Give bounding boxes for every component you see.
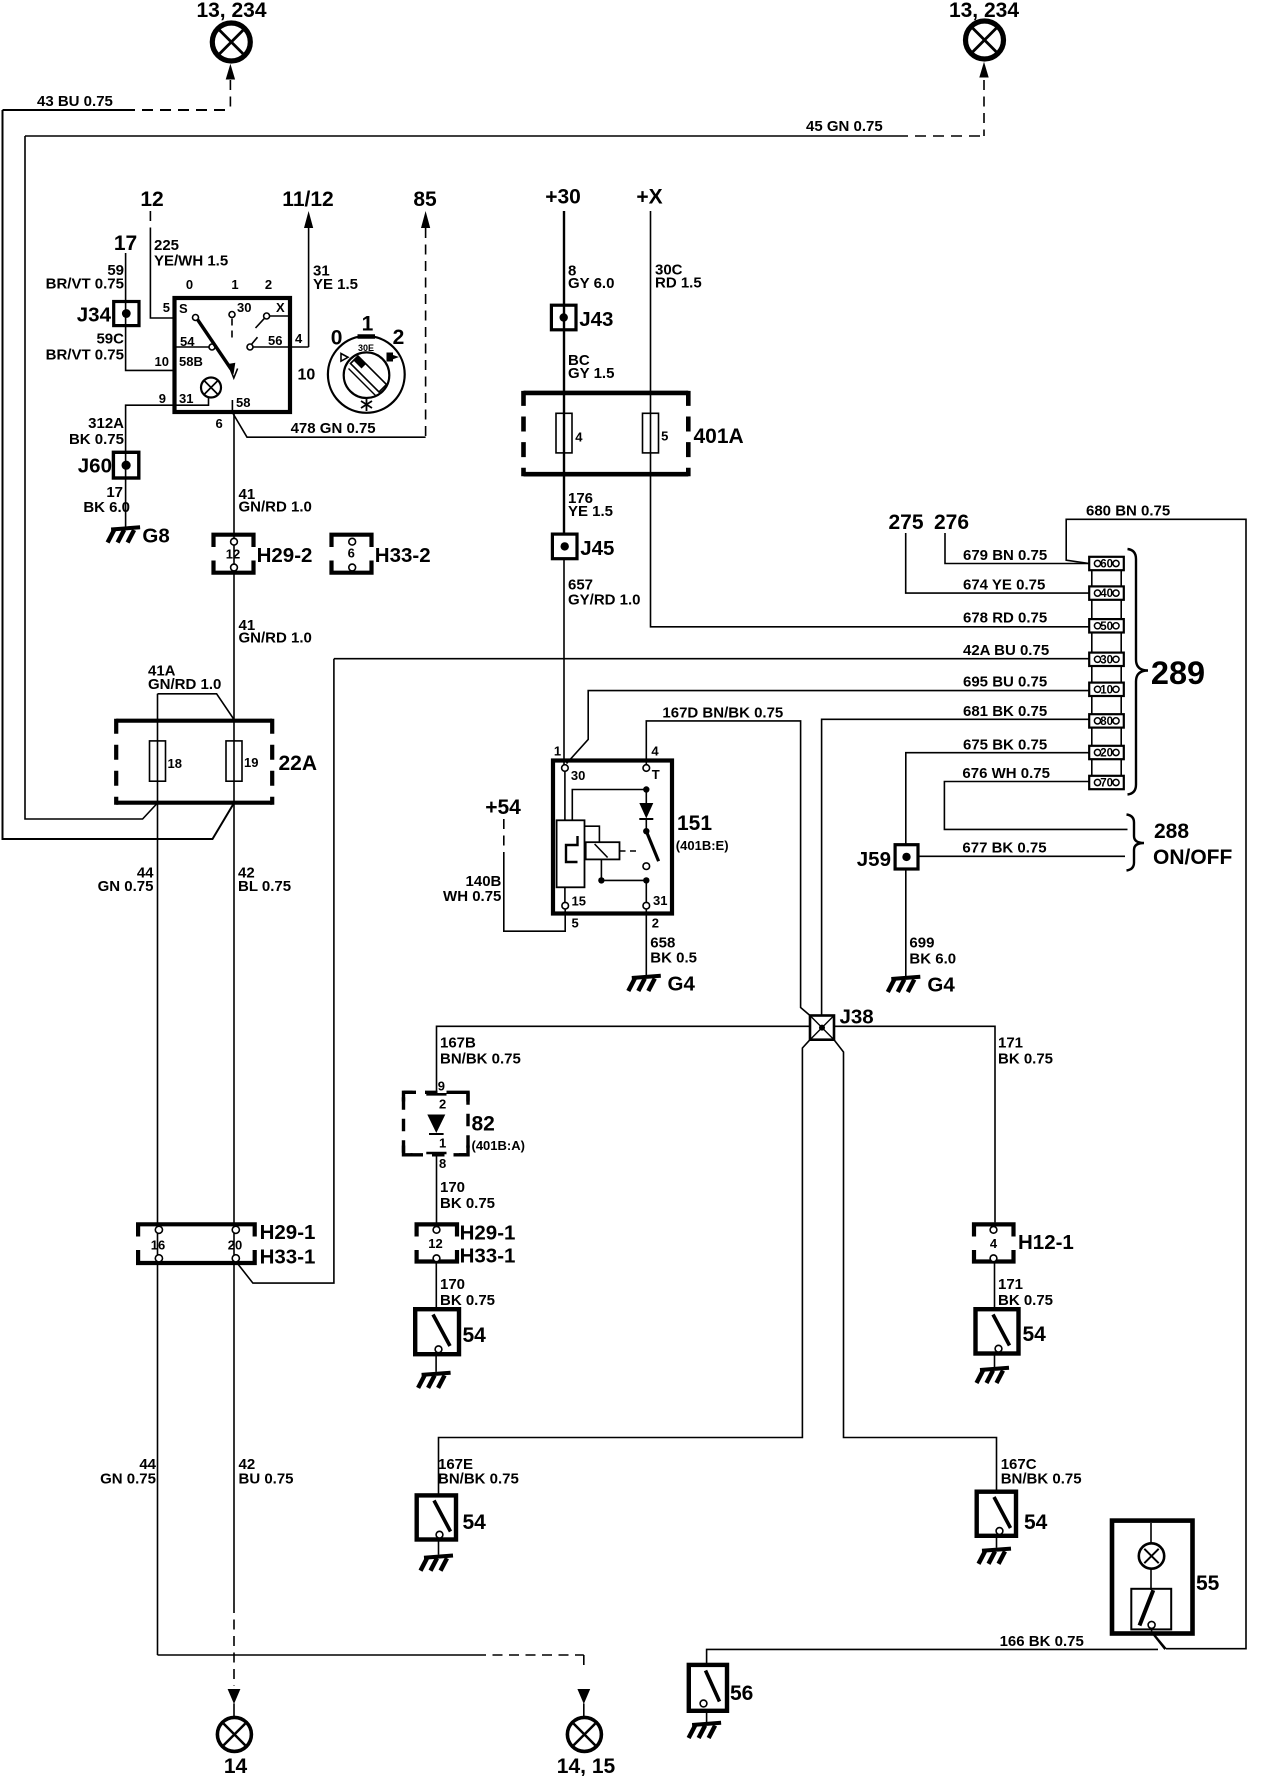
wire label 170 BK 0.75 (upper) xyxy=(440,1179,495,1212)
wire label 225 YE/WH 1.5 xyxy=(154,237,228,270)
svg-text:WH 0.75: WH 0.75 xyxy=(443,888,501,905)
switch 10 box xyxy=(175,298,291,412)
wire 167D BN/BK 0.75 from pin 4 xyxy=(646,721,810,1016)
node 276 label xyxy=(934,511,969,534)
svg-text:54: 54 xyxy=(1024,1511,1048,1534)
node +30 label xyxy=(545,186,581,209)
svg-text:5: 5 xyxy=(661,429,668,444)
switch 10 terminal 58 xyxy=(232,395,250,412)
svg-text:BK 0.75: BK 0.75 xyxy=(440,1195,495,1212)
wire 676 WH 0.75 from 288 to pin 70 xyxy=(944,782,1127,830)
wire 681 BK 0.75 to pin 80 and down to J38 xyxy=(822,719,1090,1015)
wire label 42 BL 0.75 (upper) xyxy=(238,865,291,896)
relay 151 armature xyxy=(557,772,585,903)
wire left rail (43 BU) down and to fuse 19 column xyxy=(3,110,235,839)
connector J59 label xyxy=(857,848,891,871)
svg-text:151: 151 xyxy=(677,812,712,835)
svg-text:20: 20 xyxy=(228,1238,242,1253)
wire label 41 GN/RD 1.0 (upper) xyxy=(239,486,312,516)
svg-text:12: 12 xyxy=(226,547,240,562)
svg-text:50: 50 xyxy=(1100,621,1113,633)
wire 166 BK 0.75 from 55 to 56 xyxy=(707,1634,1165,1665)
wire 171 BK 0.75 to switch 54 (right) xyxy=(994,1262,996,1310)
svg-text:59C: 59C xyxy=(96,331,124,348)
svg-text:85: 85 xyxy=(413,188,437,211)
svg-text:1: 1 xyxy=(439,1136,446,1151)
wire label 59C BR/VT 0.75 xyxy=(46,331,125,364)
svg-text:54: 54 xyxy=(1023,1323,1047,1346)
switch 54 (door contact, left) xyxy=(415,1309,459,1354)
svg-text:BK 6.0: BK 6.0 xyxy=(83,499,130,516)
switch 54 (left) label xyxy=(463,1324,487,1347)
svg-text:679 BN 0.75: 679 BN 0.75 xyxy=(963,547,1047,564)
relay 151 pin 4 (T) xyxy=(643,744,660,783)
wire 59 BR/VT 0.75 down through J34 to pin 10 xyxy=(126,253,173,370)
svg-text:GN/RD 1.0: GN/RD 1.0 xyxy=(239,499,312,516)
svg-text:30E: 30E xyxy=(358,343,374,353)
wire J38 bottom-right branch down to 167C xyxy=(834,1040,997,1492)
wire label 680 BN 0.75 xyxy=(1086,503,1170,520)
wire J38 bottom-left branch down to 167E xyxy=(439,1040,811,1496)
wire 699 BK 6.0 from J59 to G4 xyxy=(905,869,907,976)
svg-text:171: 171 xyxy=(998,1276,1023,1293)
wire 677 BK 0.75 from J59 to 288 xyxy=(918,855,1125,857)
connector 288 ON/OFF label xyxy=(1153,820,1232,869)
wire label 171 BK 0.75 (upper) xyxy=(998,1035,1053,1068)
ignition key symbol xyxy=(328,313,405,413)
svg-text:GY 6.0: GY 6.0 xyxy=(568,275,614,292)
wire label 167C BN/BK 0.75 xyxy=(1001,1456,1082,1488)
svg-text:167B: 167B xyxy=(440,1035,476,1052)
relay 22A label xyxy=(279,752,318,775)
wire 170 BK 0.75 to switch 54 xyxy=(435,1262,437,1310)
fuse 4 xyxy=(556,413,583,453)
connector H29-1/H33-1 (right) xyxy=(417,1224,457,1261)
relay 151 coil xyxy=(585,826,647,883)
ground G4 (right) xyxy=(888,974,956,997)
connector H33-2 label xyxy=(375,544,431,567)
svg-text:1: 1 xyxy=(231,277,238,292)
svg-text:4: 4 xyxy=(651,744,659,759)
svg-text:30: 30 xyxy=(1100,654,1113,666)
connector H29-2 xyxy=(214,535,254,573)
lamp 13,234 (left top) xyxy=(212,23,250,61)
fuse 19 xyxy=(226,741,258,781)
connector H12-1 xyxy=(974,1224,1014,1261)
wire label 44 GN 0.75 (upper) xyxy=(98,865,155,896)
svg-text:58: 58 xyxy=(236,395,250,410)
connector 289 pin 40 xyxy=(1089,586,1124,600)
wire label 59 BR/VT 0.75 xyxy=(46,262,124,293)
svg-text:J43: J43 xyxy=(579,308,613,331)
svg-text:T: T xyxy=(652,767,660,782)
svg-text:GN/RD 1.0: GN/RD 1.0 xyxy=(239,630,312,647)
connector J34 label xyxy=(77,304,112,327)
connector 289 label xyxy=(1151,655,1205,691)
node +54 label xyxy=(485,796,521,819)
wire 41A GN/RD 1.0 branch to fuse 18 xyxy=(158,694,235,720)
svg-text:YE/WH 1.5: YE/WH 1.5 xyxy=(154,253,228,270)
connector 289 brace xyxy=(1128,549,1149,795)
switch 10 terminal 58B xyxy=(179,354,203,369)
wire label 681 BK 0.75 xyxy=(963,703,1047,720)
svg-text:GN/RD 1.0: GN/RD 1.0 xyxy=(148,676,221,693)
wire 140B WH 0.75 from +54 to pin 5 xyxy=(504,819,565,931)
svg-text:2: 2 xyxy=(439,1097,446,1112)
wire label 140B WH 0.75 xyxy=(443,873,502,905)
svg-text:9: 9 xyxy=(438,1079,445,1094)
svg-text:30: 30 xyxy=(571,768,585,783)
relay 151 box xyxy=(553,761,672,914)
wire label 675 BK 0.75 xyxy=(963,737,1047,754)
connector 289 pin 70 xyxy=(1089,776,1124,790)
node 85 arrow xyxy=(413,188,437,437)
unit 55 lamp xyxy=(1139,1523,1164,1590)
wire label 312A BK 0.75 xyxy=(69,415,124,448)
node 12 label xyxy=(140,188,163,211)
switch 56 label xyxy=(730,1682,753,1705)
relay 151 internal link to diode xyxy=(572,790,646,821)
connector 289 pin rows xyxy=(1092,570,1121,776)
node +X label xyxy=(636,186,662,209)
wire label 677 BK 0.75 xyxy=(962,840,1046,857)
svg-text:13, 234: 13, 234 xyxy=(949,0,1019,22)
switch 10 position labels 0 1 2 xyxy=(186,277,272,292)
wire label 30C RD 1.5 xyxy=(655,262,702,292)
svg-text:BK 0.75: BK 0.75 xyxy=(998,1051,1053,1068)
svg-text:GN 0.75: GN 0.75 xyxy=(98,878,154,895)
svg-text:275: 275 xyxy=(888,511,923,534)
wire J38 right branch to 171 column xyxy=(834,1026,995,1222)
svg-text:1: 1 xyxy=(362,313,374,336)
svg-text:GY 1.5: GY 1.5 xyxy=(568,365,614,382)
connector J45 label xyxy=(580,537,614,560)
wire label 699 BK 6.0 xyxy=(909,935,956,968)
svg-text:BK 6.0: BK 6.0 xyxy=(909,951,956,968)
svg-text:H29-1: H29-1 xyxy=(460,1222,516,1245)
wire 45 GN 0.75 horizontal xyxy=(25,135,984,137)
svg-text:70: 70 xyxy=(1100,778,1113,790)
svg-text:60: 60 xyxy=(1100,559,1113,571)
svg-text:680 BN 0.75: 680 BN 0.75 xyxy=(1086,503,1170,520)
svg-text:55: 55 xyxy=(1196,1572,1220,1595)
svg-text:401A: 401A xyxy=(694,425,744,448)
svg-text:17: 17 xyxy=(114,232,137,255)
svg-text:6: 6 xyxy=(348,546,355,561)
svg-text:16: 16 xyxy=(151,1238,165,1253)
svg-text:14: 14 xyxy=(224,1755,248,1776)
svg-text:+X: +X xyxy=(636,186,662,209)
component 10 label xyxy=(298,367,316,384)
svg-text:312A: 312A xyxy=(88,415,124,432)
svg-text:ON/OFF: ON/OFF xyxy=(1153,846,1232,869)
svg-text:BK 0.5: BK 0.5 xyxy=(650,950,697,967)
wire label 42A BU 0.75 xyxy=(963,642,1049,659)
svg-text:170: 170 xyxy=(440,1276,465,1293)
junction J38 xyxy=(810,1016,834,1040)
diode unit 82 xyxy=(404,1079,469,1172)
svg-text:1: 1 xyxy=(554,744,561,759)
wire 42 BL column down to lamp 14 xyxy=(228,721,241,1717)
wire label 478 GN 0.75 xyxy=(291,420,376,437)
svg-text:478 GN 0.75: 478 GN 0.75 xyxy=(291,420,376,437)
svg-text:56: 56 xyxy=(268,333,282,348)
connector H29-1/H33-1 (left, pins 16/20) xyxy=(138,1224,255,1263)
svg-text:BR/VT 0.75: BR/VT 0.75 xyxy=(46,347,124,364)
connector H29-1/H33-1 (left) labels xyxy=(260,1221,316,1269)
wire label 678 RD 0.75 xyxy=(963,610,1047,627)
svg-text:H12-1: H12-1 xyxy=(1018,1231,1074,1254)
node 14, 15 label xyxy=(557,1755,616,1776)
switch 54 (door contact, right) xyxy=(976,1309,1019,1353)
wire label 679 BN 0.75 xyxy=(963,547,1047,564)
svg-text:18: 18 xyxy=(168,756,182,771)
svg-text:G8: G8 xyxy=(142,525,169,548)
svg-text:BK 0.75: BK 0.75 xyxy=(69,431,124,448)
switch 10 outside pin numbers xyxy=(155,300,303,431)
wire label 674 YE 0.75 xyxy=(963,577,1045,594)
svg-text:695 BU 0.75: 695 BU 0.75 xyxy=(963,674,1047,691)
wire label 176 YE 1.5 xyxy=(568,490,613,520)
node 14 label xyxy=(224,1755,248,1776)
ground under switch 54 (left) xyxy=(418,1354,451,1388)
connector 289 pin 20 xyxy=(1089,746,1124,760)
svg-text:676 WH 0.75: 676 WH 0.75 xyxy=(962,765,1050,782)
switch 10 terminal 31 and lamp xyxy=(175,378,222,407)
svg-text:4: 4 xyxy=(295,331,303,346)
wire 170 BK 0.75 from 82 to H29-1 xyxy=(436,1155,438,1227)
svg-text:+54: +54 xyxy=(485,796,521,819)
svg-text:J38: J38 xyxy=(840,1006,874,1029)
svg-text:14, 15: 14, 15 xyxy=(557,1755,616,1776)
svg-text:171: 171 xyxy=(998,1035,1023,1052)
wire J38 left branch to 167B column xyxy=(437,1026,811,1092)
wire label BC GY 1.5 xyxy=(568,352,614,382)
wire label 41 GN/RD 1.0 (lower) xyxy=(239,617,312,647)
svg-text:4: 4 xyxy=(575,430,583,445)
switch 56 xyxy=(689,1665,727,1711)
lamp/switch unit 55 box xyxy=(1112,1521,1193,1634)
wire 658 BK 0.5 from pin 2 to G4 xyxy=(645,909,647,975)
svg-text:167D BN/BK 0.75: 167D BN/BK 0.75 xyxy=(662,705,783,722)
wire label 676 WH 0.75 xyxy=(962,765,1050,782)
connector H33-2 xyxy=(332,535,372,573)
wire 312A BK 0.75 from pin 9 down through J60 to G8 xyxy=(126,405,173,526)
lamp 14 (bottom) xyxy=(217,1717,251,1751)
switch 10 terminal X xyxy=(256,300,291,328)
svg-text:+30: +30 xyxy=(545,186,581,209)
ground G4 (left) xyxy=(628,973,695,996)
connector J34 xyxy=(114,302,139,326)
switch 54 (bottom right) label xyxy=(1024,1511,1048,1534)
svg-text:82: 82 xyxy=(472,1113,495,1136)
svg-text:681 BK 0.75: 681 BK 0.75 xyxy=(963,703,1047,720)
svg-text:0: 0 xyxy=(186,277,193,292)
svg-text:2: 2 xyxy=(393,326,405,349)
svg-text:YE 1.5: YE 1.5 xyxy=(313,276,358,293)
wire label 41A GN/RD 1.0 xyxy=(148,663,221,694)
svg-text:H29-2: H29-2 xyxy=(257,544,313,567)
svg-text:19: 19 xyxy=(244,755,258,770)
connector J43 label xyxy=(579,308,613,331)
svg-text:11/12: 11/12 xyxy=(282,188,333,211)
fuse 18 xyxy=(150,741,182,781)
svg-text:RD 1.5: RD 1.5 xyxy=(655,275,702,292)
svg-text:80: 80 xyxy=(1100,716,1113,728)
wire label 166 BK 0.75 xyxy=(1000,1633,1084,1650)
switch 54 (bottom left) xyxy=(417,1495,456,1539)
svg-text:225: 225 xyxy=(154,237,179,254)
svg-text:0: 0 xyxy=(331,327,343,350)
connector 289 pin 50 xyxy=(1089,619,1124,633)
switch 10 terminal S xyxy=(179,301,199,321)
junction J38 label xyxy=(840,1006,874,1029)
ground under switch 54 (right) xyxy=(977,1354,1010,1384)
svg-text:H33-1: H33-1 xyxy=(260,1246,316,1269)
relay 151 pin 1 (30) xyxy=(554,744,585,784)
svg-text:BR/VT 0.75: BR/VT 0.75 xyxy=(46,276,124,293)
node 275 label xyxy=(888,511,923,534)
node 11/12 arrow xyxy=(282,188,333,347)
svg-text:10: 10 xyxy=(298,367,316,384)
svg-text:BK 0.75: BK 0.75 xyxy=(440,1292,495,1309)
svg-text:J60: J60 xyxy=(78,455,112,478)
svg-text:BU 0.75: BU 0.75 xyxy=(239,1471,294,1488)
svg-text:BK 0.75: BK 0.75 xyxy=(998,1292,1053,1309)
wire 42A BU 0.75 horizontal to pin 30 xyxy=(334,658,1089,660)
diode unit 82 label xyxy=(472,1113,525,1154)
connector H29-1/H33-1 (right) labels xyxy=(460,1222,516,1268)
wire 43 BU 0.75 horizontal xyxy=(3,109,231,111)
svg-text:G4: G4 xyxy=(668,973,696,996)
relay 151 switch blade xyxy=(620,831,659,902)
wire label 42 BU 0.75 (lower) xyxy=(239,1456,294,1488)
connector 289 pin 10 xyxy=(1089,683,1124,697)
svg-text:4: 4 xyxy=(990,1236,998,1251)
svg-text:677 BK 0.75: 677 BK 0.75 xyxy=(962,840,1046,857)
wire label 657 GY/RD 1.0 xyxy=(568,577,641,609)
wire 674 YE 0.75 from 275 to pin 40 xyxy=(906,533,1089,593)
svg-text:BN/BK 0.75: BN/BK 0.75 xyxy=(440,1051,521,1068)
svg-text:12: 12 xyxy=(140,188,163,211)
connector J60 label xyxy=(78,455,112,478)
svg-text:H33-1: H33-1 xyxy=(460,1245,516,1268)
connector H12-1 label xyxy=(1018,1231,1074,1254)
relay box 22A xyxy=(116,719,272,805)
unit 55 label xyxy=(1196,1572,1220,1595)
ground G8 xyxy=(108,525,170,548)
wire left rail (45 GN) down and to fuse 18 column xyxy=(25,136,158,819)
svg-text:22A: 22A xyxy=(279,752,318,775)
svg-text:31: 31 xyxy=(653,893,667,908)
svg-text:H29-1: H29-1 xyxy=(260,1221,316,1244)
switch 54 (bottom right) xyxy=(977,1492,1016,1536)
wire 225 YE/WH 1.5 from 12 to pin S xyxy=(150,211,172,318)
svg-text:12: 12 xyxy=(428,1236,442,1251)
connector H29-2 label xyxy=(257,544,313,567)
wire 30C RD 1.5 (+X column) xyxy=(651,211,1090,627)
svg-text:BN/BK 0.75: BN/BK 0.75 xyxy=(438,1471,519,1488)
wire label 167B BN/BK 0.75 xyxy=(440,1035,521,1068)
wire 41 GN/RD 1.0 from switch pin 58 through H29-2 to 22A xyxy=(233,413,235,721)
svg-text:15: 15 xyxy=(572,894,586,909)
svg-text:(401B:E): (401B:E) xyxy=(676,838,729,853)
lamp 14,15 (bottom) xyxy=(567,1717,601,1751)
wire label 8 GY 6.0 xyxy=(568,263,614,293)
wire 695 BU 0.75 from pin 1 to 289 pin 10 xyxy=(567,691,1090,764)
svg-text:40: 40 xyxy=(1100,588,1113,600)
svg-text:H33-2: H33-2 xyxy=(375,544,431,567)
svg-text:276: 276 xyxy=(934,511,969,534)
wire label 167D BN/BK 0.75 xyxy=(662,705,783,722)
wire 31 YE 1.5 from pin 56 xyxy=(290,346,309,348)
svg-text:9: 9 xyxy=(159,391,166,406)
node 13, 234 (left) label xyxy=(196,0,266,22)
svg-text:(401B:A): (401B:A) xyxy=(472,1138,525,1153)
svg-text:170: 170 xyxy=(440,1179,465,1196)
connector J45 xyxy=(552,534,577,559)
fuse box 401A xyxy=(524,391,689,476)
svg-text:BN/BK 0.75: BN/BK 0.75 xyxy=(1001,1471,1082,1488)
connector J59 xyxy=(895,845,918,869)
svg-text:288: 288 xyxy=(1154,820,1189,843)
wire 45 GN 0.75 arrow to lamp xyxy=(979,62,988,136)
wire label 31 YE 1.5 xyxy=(313,263,358,294)
wire 657 GY/RD 1.0 down to relay 151 pin 1 xyxy=(563,559,565,765)
svg-text:X: X xyxy=(276,300,285,315)
svg-text:GN 0.75: GN 0.75 xyxy=(100,1471,156,1488)
ground under switch 54 (bottom left) xyxy=(421,1540,454,1571)
wire label 658 BK 0.5 xyxy=(650,935,697,967)
wire 8 GY 6.0 (+30 column upper) xyxy=(563,211,565,534)
svg-text:13, 234: 13, 234 xyxy=(196,0,266,22)
wire 680 BN 0.75 from pin 60 along right edge to switch 55 xyxy=(1066,519,1246,1648)
svg-text:30: 30 xyxy=(237,300,251,315)
switch 10 terminal 54 xyxy=(175,334,216,350)
lamp 13,234 (right top) xyxy=(966,21,1004,59)
svg-text:54: 54 xyxy=(463,1324,487,1347)
svg-text:58B: 58B xyxy=(179,354,203,369)
svg-text:5: 5 xyxy=(572,916,579,931)
wire 478 GN 0.75 from pin 58/6 xyxy=(233,414,426,438)
wire label 695 BU 0.75 xyxy=(963,674,1047,691)
switch 54 (bottom left) label xyxy=(463,1511,487,1534)
svg-text:678 RD 0.75: 678 RD 0.75 xyxy=(963,610,1047,627)
svg-text:2: 2 xyxy=(265,277,272,292)
switch 54 (right) label xyxy=(1023,1323,1047,1346)
fuse box 401A label xyxy=(694,425,744,448)
connector 289 pin 30 xyxy=(1089,653,1124,667)
switch 10 blade xyxy=(198,320,238,379)
svg-text:699: 699 xyxy=(909,935,934,952)
svg-text:31: 31 xyxy=(179,391,193,406)
svg-text:675 BK 0.75: 675 BK 0.75 xyxy=(963,737,1047,754)
svg-text:YE 1.5: YE 1.5 xyxy=(568,503,613,520)
wire label 44 GN 0.75 (lower) xyxy=(100,1456,157,1488)
svg-text:G4: G4 xyxy=(927,974,955,997)
ground under switch 54 (bottom right) xyxy=(979,1536,1012,1564)
switch 10 terminal 30 with dashed stem xyxy=(229,300,251,340)
svg-text:674 YE 0.75: 674 YE 0.75 xyxy=(963,577,1045,594)
svg-text:5: 5 xyxy=(163,300,170,315)
ground under switch 56 xyxy=(689,1711,722,1738)
node 13, 234 (right) label xyxy=(949,0,1019,22)
wire label 167E BN/BK 0.75 xyxy=(438,1456,519,1488)
svg-text:289: 289 xyxy=(1151,655,1205,691)
wire label 17 BK 6.0 xyxy=(83,484,130,516)
svg-text:6: 6 xyxy=(216,416,223,431)
wire 675 BK 0.75 from J59 to pin 20 xyxy=(906,753,1089,844)
